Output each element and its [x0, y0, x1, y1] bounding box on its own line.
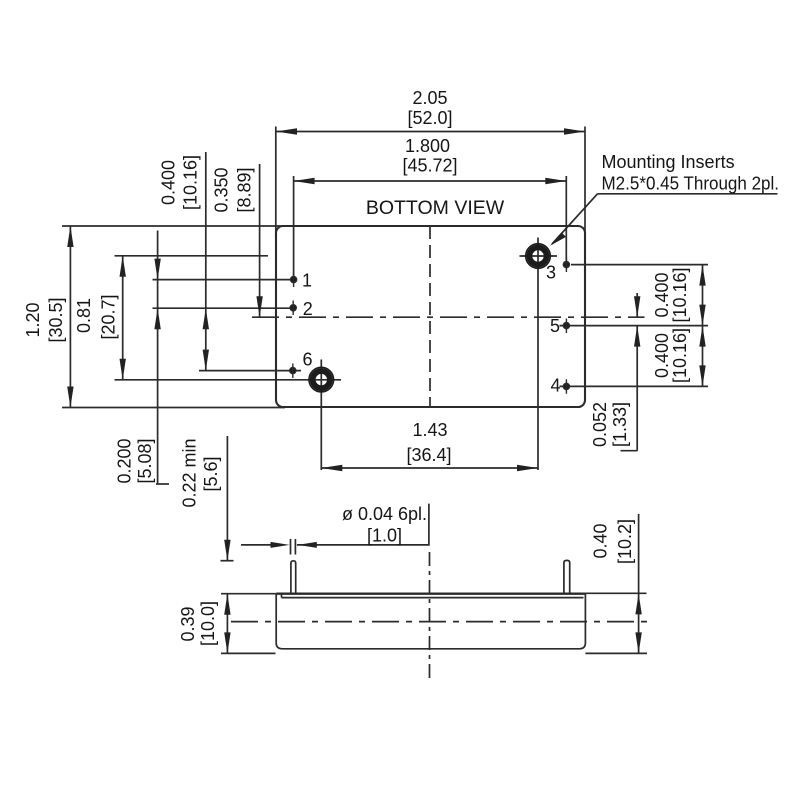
svg-text:Mounting Inserts: Mounting Inserts: [602, 152, 735, 172]
pin 3: [563, 262, 569, 268]
svg-text:[36.4]: [36.4]: [406, 445, 451, 465]
svg-text:[1.33]: [1.33]: [610, 402, 630, 447]
pin row extension lines left: [153, 279, 291, 281]
text labels rotated: [23, 155, 690, 646]
dimension 0.22 min [5.6]: [226, 436, 228, 561]
1.800 arrows: [294, 178, 315, 184]
pin row extension lines right: [571, 264, 708, 266]
dimension 0.052 [1.33]: [636, 293, 638, 317]
mounting leader arrow: [550, 232, 566, 245]
dimension 0.39 [10.0]: [226, 594, 228, 654]
pin 5: [563, 323, 569, 329]
svg-text:2.05: 2.05: [412, 88, 447, 108]
dimension 0.81 [20.7] insert row span: [115, 255, 269, 257]
0.350 arrow: [256, 296, 262, 317]
side view right pin: [564, 560, 570, 593]
svg-text:BOTTOM VIEW: BOTTOM VIEW: [366, 197, 505, 219]
0.40 arrows: [635, 593, 641, 614]
2.05 arrows: [276, 128, 297, 134]
svg-text:0.200: 0.200: [115, 438, 135, 483]
svg-text:0.400: 0.400: [159, 160, 179, 205]
dimension 1.43 [36.4] insert span: [537, 238, 539, 471]
svg-text:0.350: 0.350: [212, 167, 232, 212]
side view center line vertical: [429, 552, 431, 679]
0.200 arrows outside: [154, 259, 160, 280]
dimension 1.20 [30.5] package height: [62, 225, 285, 227]
dimension 0.40 [10.2]: [638, 514, 640, 653]
0.22 min arrow: [224, 540, 230, 561]
dimension 2.05 [52.0] overall width: [276, 131, 585, 133]
svg-text:0.052: 0.052: [590, 402, 610, 447]
svg-text:[5.6]: [5.6]: [201, 456, 221, 491]
pin pads bottom view: [290, 258, 570, 394]
svg-text:5: 5: [550, 316, 560, 336]
svg-text:0.81: 0.81: [74, 298, 94, 333]
svg-text:0.400: 0.400: [652, 272, 672, 317]
pin 2: [290, 305, 296, 311]
svg-text:[5.08]: [5.08]: [135, 438, 155, 483]
dimension 0.200 [5.08] pin1-pin2: [157, 231, 159, 485]
svg-text:3: 3: [546, 263, 556, 283]
svg-text:1: 1: [302, 271, 312, 291]
pin 1: [291, 277, 297, 283]
svg-text:0.400: 0.400: [652, 333, 672, 378]
0.400 right upper arrows: [699, 265, 705, 286]
svg-text:[1.0]: [1.0]: [367, 526, 402, 546]
svg-text:0.40: 0.40: [591, 523, 611, 558]
dimension 0.400 [10.16] right pair line: [702, 265, 704, 387]
svg-text:[52.0]: [52.0]: [407, 108, 452, 128]
svg-text:[10.0]: [10.0]: [198, 601, 218, 646]
svg-text:[10.2]: [10.2]: [615, 519, 635, 564]
svg-text:6: 6: [302, 350, 312, 370]
svg-text:2: 2: [303, 299, 313, 319]
svg-text:ø 0.04 6pl.: ø 0.04 6pl.: [342, 504, 427, 524]
0.39 arrows: [224, 594, 230, 615]
svg-text:0.22 min: 0.22 min: [180, 438, 200, 507]
center line horizontal bottom view: [252, 316, 645, 318]
0.81 arrows: [120, 256, 126, 277]
pin 6: [290, 368, 296, 374]
dimension 1.800 [45.72] pin span: [294, 180, 567, 182]
dimension 0.400 [10.16] left pin2-pin6: [205, 152, 207, 371]
svg-text:1.20: 1.20: [23, 302, 43, 337]
insert crosshairs: [520, 255, 558, 257]
0.052 arrows outside: [634, 296, 640, 317]
side view left pin: [291, 561, 296, 594]
1.20 arrows: [67, 226, 73, 247]
0.400 right lower arrows: [699, 326, 705, 347]
0.400 left arrows: [203, 308, 209, 329]
dimension 0.350 [8.89] left: [259, 164, 261, 317]
svg-text:[10.16]: [10.16]: [670, 328, 690, 383]
svg-text:[10.16]: [10.16]: [670, 267, 690, 322]
svg-text:1.43: 1.43: [412, 420, 447, 440]
arrowheads: [67, 128, 706, 653]
text labels horizontal: [302, 88, 779, 546]
pin 4: [563, 383, 569, 389]
svg-text:M2.5*0.45 Through 2pl.: M2.5*0.45 Through 2pl.: [602, 174, 780, 194]
svg-text:[45.72]: [45.72]: [402, 156, 457, 176]
side view extension lines: [221, 593, 276, 595]
center line vertical bottom view: [429, 226, 431, 407]
svg-text:[10.16]: [10.16]: [181, 155, 201, 210]
side view body: [276, 593, 585, 595]
svg-text:1.800: 1.800: [405, 136, 450, 156]
mounting insert top right: [526, 244, 551, 269]
svg-text:0.39: 0.39: [178, 606, 198, 641]
leader pin diameter 0.04: [241, 544, 271, 546]
svg-text:[30.5]: [30.5]: [46, 297, 66, 342]
package outline bottom view: [276, 226, 585, 407]
1.43 arrows: [321, 465, 342, 471]
mounting insert bottom left: [309, 367, 334, 392]
side view center line horizontal: [231, 621, 652, 623]
svg-text:4: 4: [550, 376, 560, 396]
pin diameter arrows: [271, 542, 290, 548]
svg-text:[8.89]: [8.89]: [235, 167, 255, 212]
svg-text:[20.7]: [20.7]: [99, 294, 119, 339]
leader Mounting Inserts: [598, 193, 778, 195]
